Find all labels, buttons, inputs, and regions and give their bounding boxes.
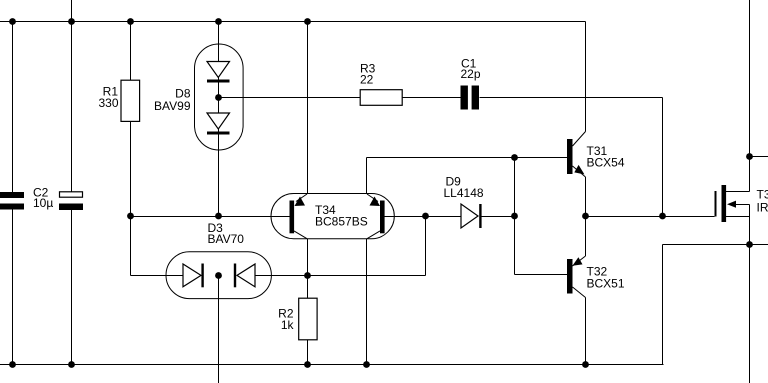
svg-text:330: 330 [98, 96, 118, 110]
svg-text:BCX54: BCX54 [587, 156, 625, 170]
svg-text:IRF: IRF [757, 201, 768, 215]
svg-text:BC857BS: BC857BS [315, 215, 368, 229]
svg-text:BAV70: BAV70 [208, 232, 245, 246]
svg-text:BCX51: BCX51 [587, 277, 625, 291]
svg-text:LL4148: LL4148 [444, 186, 484, 200]
svg-text:22p: 22p [461, 67, 481, 81]
svg-text:10µ: 10µ [33, 196, 53, 210]
svg-text:1k: 1k [281, 318, 295, 332]
svg-text:T35: T35 [757, 188, 768, 202]
svg-text:22: 22 [360, 73, 374, 87]
svg-text:BAV99: BAV99 [154, 99, 191, 113]
